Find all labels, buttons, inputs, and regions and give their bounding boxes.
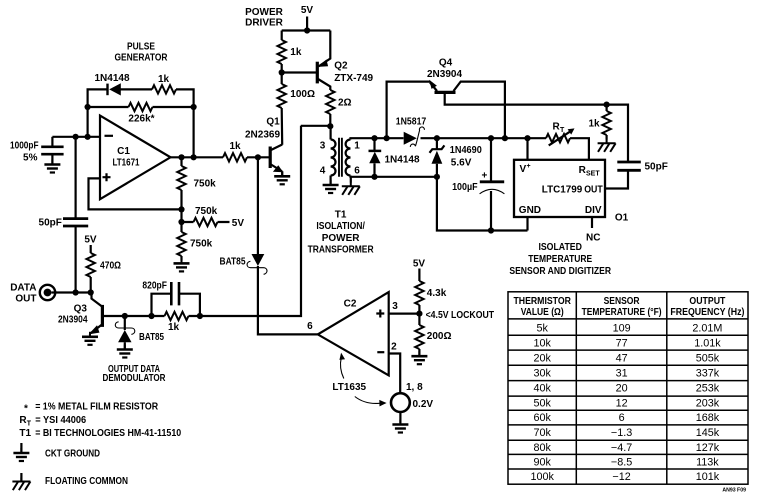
svg-text:0.2V: 0.2V bbox=[413, 399, 434, 410]
svg-text:30k: 30k bbox=[533, 368, 551, 380]
svg-text:Q4: Q4 bbox=[439, 57, 453, 68]
svg-text:DRIVER: DRIVER bbox=[245, 18, 284, 29]
svg-text:ISOLATED: ISOLATED bbox=[538, 242, 582, 253]
svg-text:1N5817: 1N5817 bbox=[396, 116, 427, 127]
svg-text:470Ω: 470Ω bbox=[100, 260, 121, 271]
svg-text:1k: 1k bbox=[229, 141, 241, 152]
svg-text:1N4148: 1N4148 bbox=[94, 73, 129, 84]
svg-text:77: 77 bbox=[616, 338, 628, 350]
svg-text:GENERATOR: GENERATOR bbox=[115, 53, 169, 64]
svg-text:60k: 60k bbox=[533, 412, 551, 424]
svg-text:6: 6 bbox=[354, 165, 360, 176]
svg-text:TEMPERATURE: TEMPERATURE bbox=[528, 254, 592, 265]
svg-text:5V: 5V bbox=[301, 5, 314, 16]
svg-text:100Ω: 100Ω bbox=[290, 89, 315, 100]
svg-text:5.6V: 5.6V bbox=[451, 157, 472, 168]
svg-text:5k: 5k bbox=[536, 323, 548, 335]
svg-text:145k: 145k bbox=[696, 427, 720, 439]
svg-text:CKT GROUND: CKT GROUND bbox=[45, 449, 100, 460]
svg-text:200Ω: 200Ω bbox=[427, 331, 452, 342]
svg-text:50k: 50k bbox=[533, 398, 551, 410]
svg-text:168k: 168k bbox=[696, 412, 720, 424]
svg-text:SET: SET bbox=[586, 171, 600, 178]
svg-text:1N4148: 1N4148 bbox=[385, 155, 420, 166]
svg-text:1N4690: 1N4690 bbox=[450, 145, 482, 156]
svg-text:−4.7: −4.7 bbox=[611, 442, 632, 454]
svg-text:101k: 101k bbox=[696, 471, 720, 483]
svg-text:750k: 750k bbox=[190, 238, 213, 249]
svg-text:5V: 5V bbox=[84, 234, 97, 245]
svg-text:4.3k: 4.3k bbox=[427, 288, 447, 299]
svg-text:6: 6 bbox=[619, 412, 625, 424]
svg-text:NC: NC bbox=[586, 232, 600, 243]
svg-text:2N3904: 2N3904 bbox=[427, 69, 462, 80]
svg-text:FLOATING COMMON: FLOATING COMMON bbox=[45, 476, 128, 487]
svg-text:1, 8: 1, 8 bbox=[406, 382, 423, 393]
svg-text:2N2369: 2N2369 bbox=[245, 130, 280, 141]
svg-text:ISOLATION/: ISOLATION/ bbox=[316, 221, 365, 232]
svg-text:100µF: 100µF bbox=[452, 182, 478, 193]
svg-text:2.01M: 2.01M bbox=[692, 323, 722, 335]
svg-text:2: 2 bbox=[391, 342, 397, 353]
svg-text:<4.5V LOCKOUT: <4.5V LOCKOUT bbox=[426, 310, 495, 321]
svg-text:1.01k: 1.01k bbox=[694, 338, 721, 350]
svg-text:OUT: OUT bbox=[15, 294, 36, 305]
svg-text:750k: 750k bbox=[194, 178, 217, 189]
svg-text:5V: 5V bbox=[232, 218, 245, 229]
svg-text:80k: 80k bbox=[533, 442, 551, 454]
svg-text:20: 20 bbox=[616, 383, 628, 395]
svg-text:VALUE (Ω): VALUE (Ω) bbox=[521, 307, 564, 318]
svg-text:THERMISTOR: THERMISTOR bbox=[513, 296, 571, 307]
svg-text:90k: 90k bbox=[533, 456, 551, 468]
svg-text:127k: 127k bbox=[696, 442, 720, 454]
svg-text:Q2: Q2 bbox=[334, 61, 348, 72]
svg-text:GND: GND bbox=[519, 205, 541, 216]
svg-text:POWER: POWER bbox=[245, 7, 284, 18]
svg-text:226k*: 226k* bbox=[128, 114, 154, 125]
svg-text:= 1% METAL FILM RESISTOR: = 1% METAL FILM RESISTOR bbox=[35, 402, 159, 413]
svg-text:BAT85: BAT85 bbox=[220, 257, 246, 268]
svg-text:1k: 1k bbox=[168, 322, 180, 333]
svg-text:T1: T1 bbox=[19, 428, 31, 439]
svg-text:50pF: 50pF bbox=[645, 162, 668, 173]
svg-text:OUTPUT: OUTPUT bbox=[689, 296, 726, 307]
svg-text:203k: 203k bbox=[696, 398, 720, 410]
svg-text:3: 3 bbox=[392, 301, 398, 312]
svg-text:1k: 1k bbox=[158, 74, 170, 85]
svg-text:5V: 5V bbox=[413, 258, 426, 269]
svg-text:POWER: POWER bbox=[322, 233, 361, 244]
svg-text:+: + bbox=[481, 170, 487, 181]
svg-text:DIV: DIV bbox=[585, 205, 602, 216]
svg-text:505k: 505k bbox=[696, 353, 720, 365]
svg-text:113k: 113k bbox=[696, 456, 719, 468]
svg-text:31: 31 bbox=[616, 368, 628, 380]
svg-text:C2: C2 bbox=[344, 298, 357, 309]
svg-text:70k: 70k bbox=[533, 427, 551, 439]
svg-text:OUT: OUT bbox=[584, 184, 603, 195]
svg-text:ZTX-749: ZTX-749 bbox=[334, 73, 373, 84]
svg-text:1: 1 bbox=[354, 140, 360, 151]
svg-text:PULSE: PULSE bbox=[127, 42, 155, 53]
svg-text:1k: 1k bbox=[290, 47, 302, 58]
svg-text:AN93 F09: AN93 F09 bbox=[722, 488, 746, 494]
svg-text:2N3904: 2N3904 bbox=[58, 315, 88, 326]
svg-text:Q1: Q1 bbox=[266, 117, 280, 128]
svg-text:20k: 20k bbox=[533, 353, 551, 365]
svg-text:C1: C1 bbox=[117, 146, 130, 157]
svg-text:−8.5: −8.5 bbox=[611, 456, 632, 468]
svg-text:5%: 5% bbox=[23, 153, 38, 164]
svg-text:109: 109 bbox=[613, 323, 631, 335]
svg-text:TRANSFORMER: TRANSFORMER bbox=[308, 245, 375, 256]
svg-text:DEMODULATOR: DEMODULATOR bbox=[103, 373, 167, 384]
svg-text:T1: T1 bbox=[335, 209, 347, 220]
svg-text:47: 47 bbox=[616, 353, 628, 365]
svg-text:253k: 253k bbox=[696, 383, 720, 395]
svg-text:40k: 40k bbox=[533, 383, 551, 395]
svg-text:750k: 750k bbox=[195, 206, 218, 217]
svg-text:3: 3 bbox=[320, 140, 326, 151]
svg-text:= YSI 44006: = YSI 44006 bbox=[35, 415, 86, 426]
svg-text:LT1635: LT1635 bbox=[332, 382, 366, 393]
svg-text:337k: 337k bbox=[696, 368, 720, 380]
svg-text:= BI TECHNOLOGIES HM-41-11510: = BI TECHNOLOGIES HM-41-11510 bbox=[35, 428, 181, 439]
svg-text:+: + bbox=[527, 163, 531, 170]
svg-text:6: 6 bbox=[307, 321, 313, 332]
svg-text:50pF: 50pF bbox=[39, 217, 62, 228]
svg-text:4: 4 bbox=[320, 165, 326, 176]
svg-text:LTC1799: LTC1799 bbox=[542, 184, 583, 195]
svg-text:820pF: 820pF bbox=[142, 281, 167, 292]
svg-text:1k: 1k bbox=[588, 119, 600, 130]
svg-text:−1.3: −1.3 bbox=[611, 427, 632, 439]
svg-text:12: 12 bbox=[616, 398, 628, 410]
svg-text:2Ω: 2Ω bbox=[338, 98, 352, 109]
svg-text:BAT85: BAT85 bbox=[139, 332, 164, 343]
svg-text:V: V bbox=[520, 164, 527, 175]
svg-text:LT1671: LT1671 bbox=[113, 158, 140, 169]
svg-text:FREQUENCY (Hz): FREQUENCY (Hz) bbox=[670, 307, 744, 318]
svg-text:SENSOR AND DIGITIZER: SENSOR AND DIGITIZER bbox=[509, 266, 611, 277]
svg-text:DATA: DATA bbox=[10, 282, 36, 293]
svg-text:1000pF: 1000pF bbox=[10, 141, 39, 152]
svg-text:T: T bbox=[560, 127, 565, 134]
svg-text:SENSOR: SENSOR bbox=[604, 296, 641, 307]
svg-text:−12: −12 bbox=[612, 471, 630, 483]
svg-text:TEMPERATURE (°F): TEMPERATURE (°F) bbox=[582, 307, 662, 318]
svg-text:Q3: Q3 bbox=[74, 303, 88, 314]
svg-text:100k: 100k bbox=[530, 471, 554, 483]
svg-text:O1: O1 bbox=[615, 213, 629, 224]
svg-text:*: * bbox=[24, 404, 28, 415]
svg-text:10k: 10k bbox=[533, 338, 551, 350]
svg-text:T: T bbox=[27, 421, 32, 428]
